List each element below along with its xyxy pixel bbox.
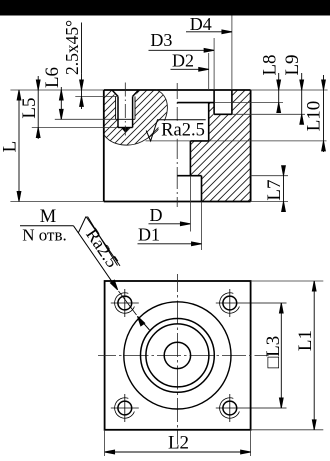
circle D central hole (164, 342, 190, 368)
svg-text:L2: L2 (168, 432, 189, 453)
Ra2.5 mark in section (159, 121, 207, 139)
D4 ext above (231, 16, 233, 91)
tapped hole centerline (124, 83, 126, 136)
square outline (105, 281, 251, 430)
svg-text:M: M (40, 207, 56, 227)
svg-text:L5: L5 (19, 97, 40, 118)
drill cone (121, 128, 129, 133)
top black bar (0, 0, 330, 16)
D bore wall (189, 141, 191, 176)
D2 ext above (208, 53, 210, 90)
groove outer wall D4 (231, 90, 233, 114)
centerlines (176, 274, 178, 445)
svg-text:L6: L6 (42, 67, 63, 88)
drill bottom (118, 127, 133, 129)
svg-text:L8: L8 (260, 54, 281, 75)
svg-text:D2: D2 (172, 51, 194, 71)
D1 step (177, 175, 201, 177)
dimension D4 (186, 30, 232, 34)
dimension L3 (279, 303, 283, 408)
top face right ext (251, 89, 328, 91)
part outline (104, 90, 251, 202)
hatching right section (76, 85, 330, 206)
dimension L2 (105, 430, 251, 456)
corner hole bottom-right (216, 394, 287, 422)
corner holes (111, 289, 287, 422)
svg-text:Ra2.5: Ra2.5 (161, 120, 205, 140)
svg-text:L: L (0, 141, 21, 153)
drill depth ext (32, 127, 118, 129)
dimension D (149, 222, 191, 226)
D2 bottom step (190, 140, 208, 142)
dimension L8 (277, 73, 281, 113)
hatching small strip (196, 100, 228, 117)
bottom face left ext (10, 201, 103, 203)
svg-text:□L3: □L3 (263, 336, 284, 369)
D3 ext above (213, 38, 215, 90)
corner hole bottom-left (111, 394, 139, 422)
svg-text:D1: D1 (138, 224, 160, 244)
chamfer depth ext (75, 95, 118, 97)
svg-text:N отв.: N отв. (22, 226, 67, 245)
svg-text:2.5x45°: 2.5x45° (62, 20, 82, 75)
L9 ext (232, 113, 305, 115)
thread crest thin lines (115, 96, 117, 119)
bore walls (117, 96, 119, 127)
dimension 2.5x45 (80, 23, 84, 110)
extension lines thin (10, 16, 327, 251)
bottom face right ext (251, 201, 288, 203)
dimension D2 (171, 67, 209, 71)
dimension L10 (322, 75, 326, 152)
bottom face (104, 201, 251, 203)
D1 wall (201, 176, 203, 202)
hatching local section (43, 85, 229, 152)
dimension L9 (300, 73, 304, 124)
dimension L6 (59, 87, 63, 119)
svg-text:L10: L10 (304, 101, 325, 132)
dimension D3 (149, 48, 215, 52)
shoulder D3->D2 (177, 102, 214, 104)
main centerline of section view (176, 83, 178, 207)
thread end ext (55, 118, 116, 120)
svg-text:L9: L9 (282, 54, 303, 75)
dimension L5 (36, 76, 40, 139)
svg-text:D4: D4 (190, 14, 212, 34)
svg-text:D: D (150, 205, 163, 225)
D2 wall (208, 103, 210, 141)
dimension L7 (282, 166, 286, 212)
mask out tapped hole inside hatch (112, 90, 139, 128)
circle D2 bore (146, 324, 209, 387)
thread end line (116, 118, 135, 120)
leader to bottom-view hole with Ra2.5 (74, 217, 150, 331)
groove inner wall (213, 90, 215, 114)
corner hole top-left (111, 289, 139, 317)
svg-text:L1: L1 (295, 330, 316, 351)
dimension L1 (251, 281, 324, 430)
chamfer (112, 90, 139, 96)
D1 ext below (201, 202, 203, 251)
L7 top ext (251, 175, 288, 177)
circle D4 counterbore (124, 302, 231, 409)
top face left ext (10, 89, 103, 91)
svg-text:L7: L7 (264, 179, 285, 200)
top face (104, 89, 251, 91)
corner hole top-right (216, 289, 287, 317)
dimension D1 (138, 242, 202, 246)
L10 ext (146, 140, 191, 142)
dimension L (17, 90, 21, 202)
right edge (250, 90, 252, 202)
outline: left edge (103, 90, 105, 202)
circle D3 recess (141, 319, 215, 393)
groove bottom (214, 113, 232, 115)
L8 ext (214, 102, 283, 104)
svg-text:D3: D3 (150, 30, 172, 50)
local section boundary arc (104, 90, 168, 145)
D ext below (189, 176, 191, 232)
tapped hole (112, 90, 139, 128)
